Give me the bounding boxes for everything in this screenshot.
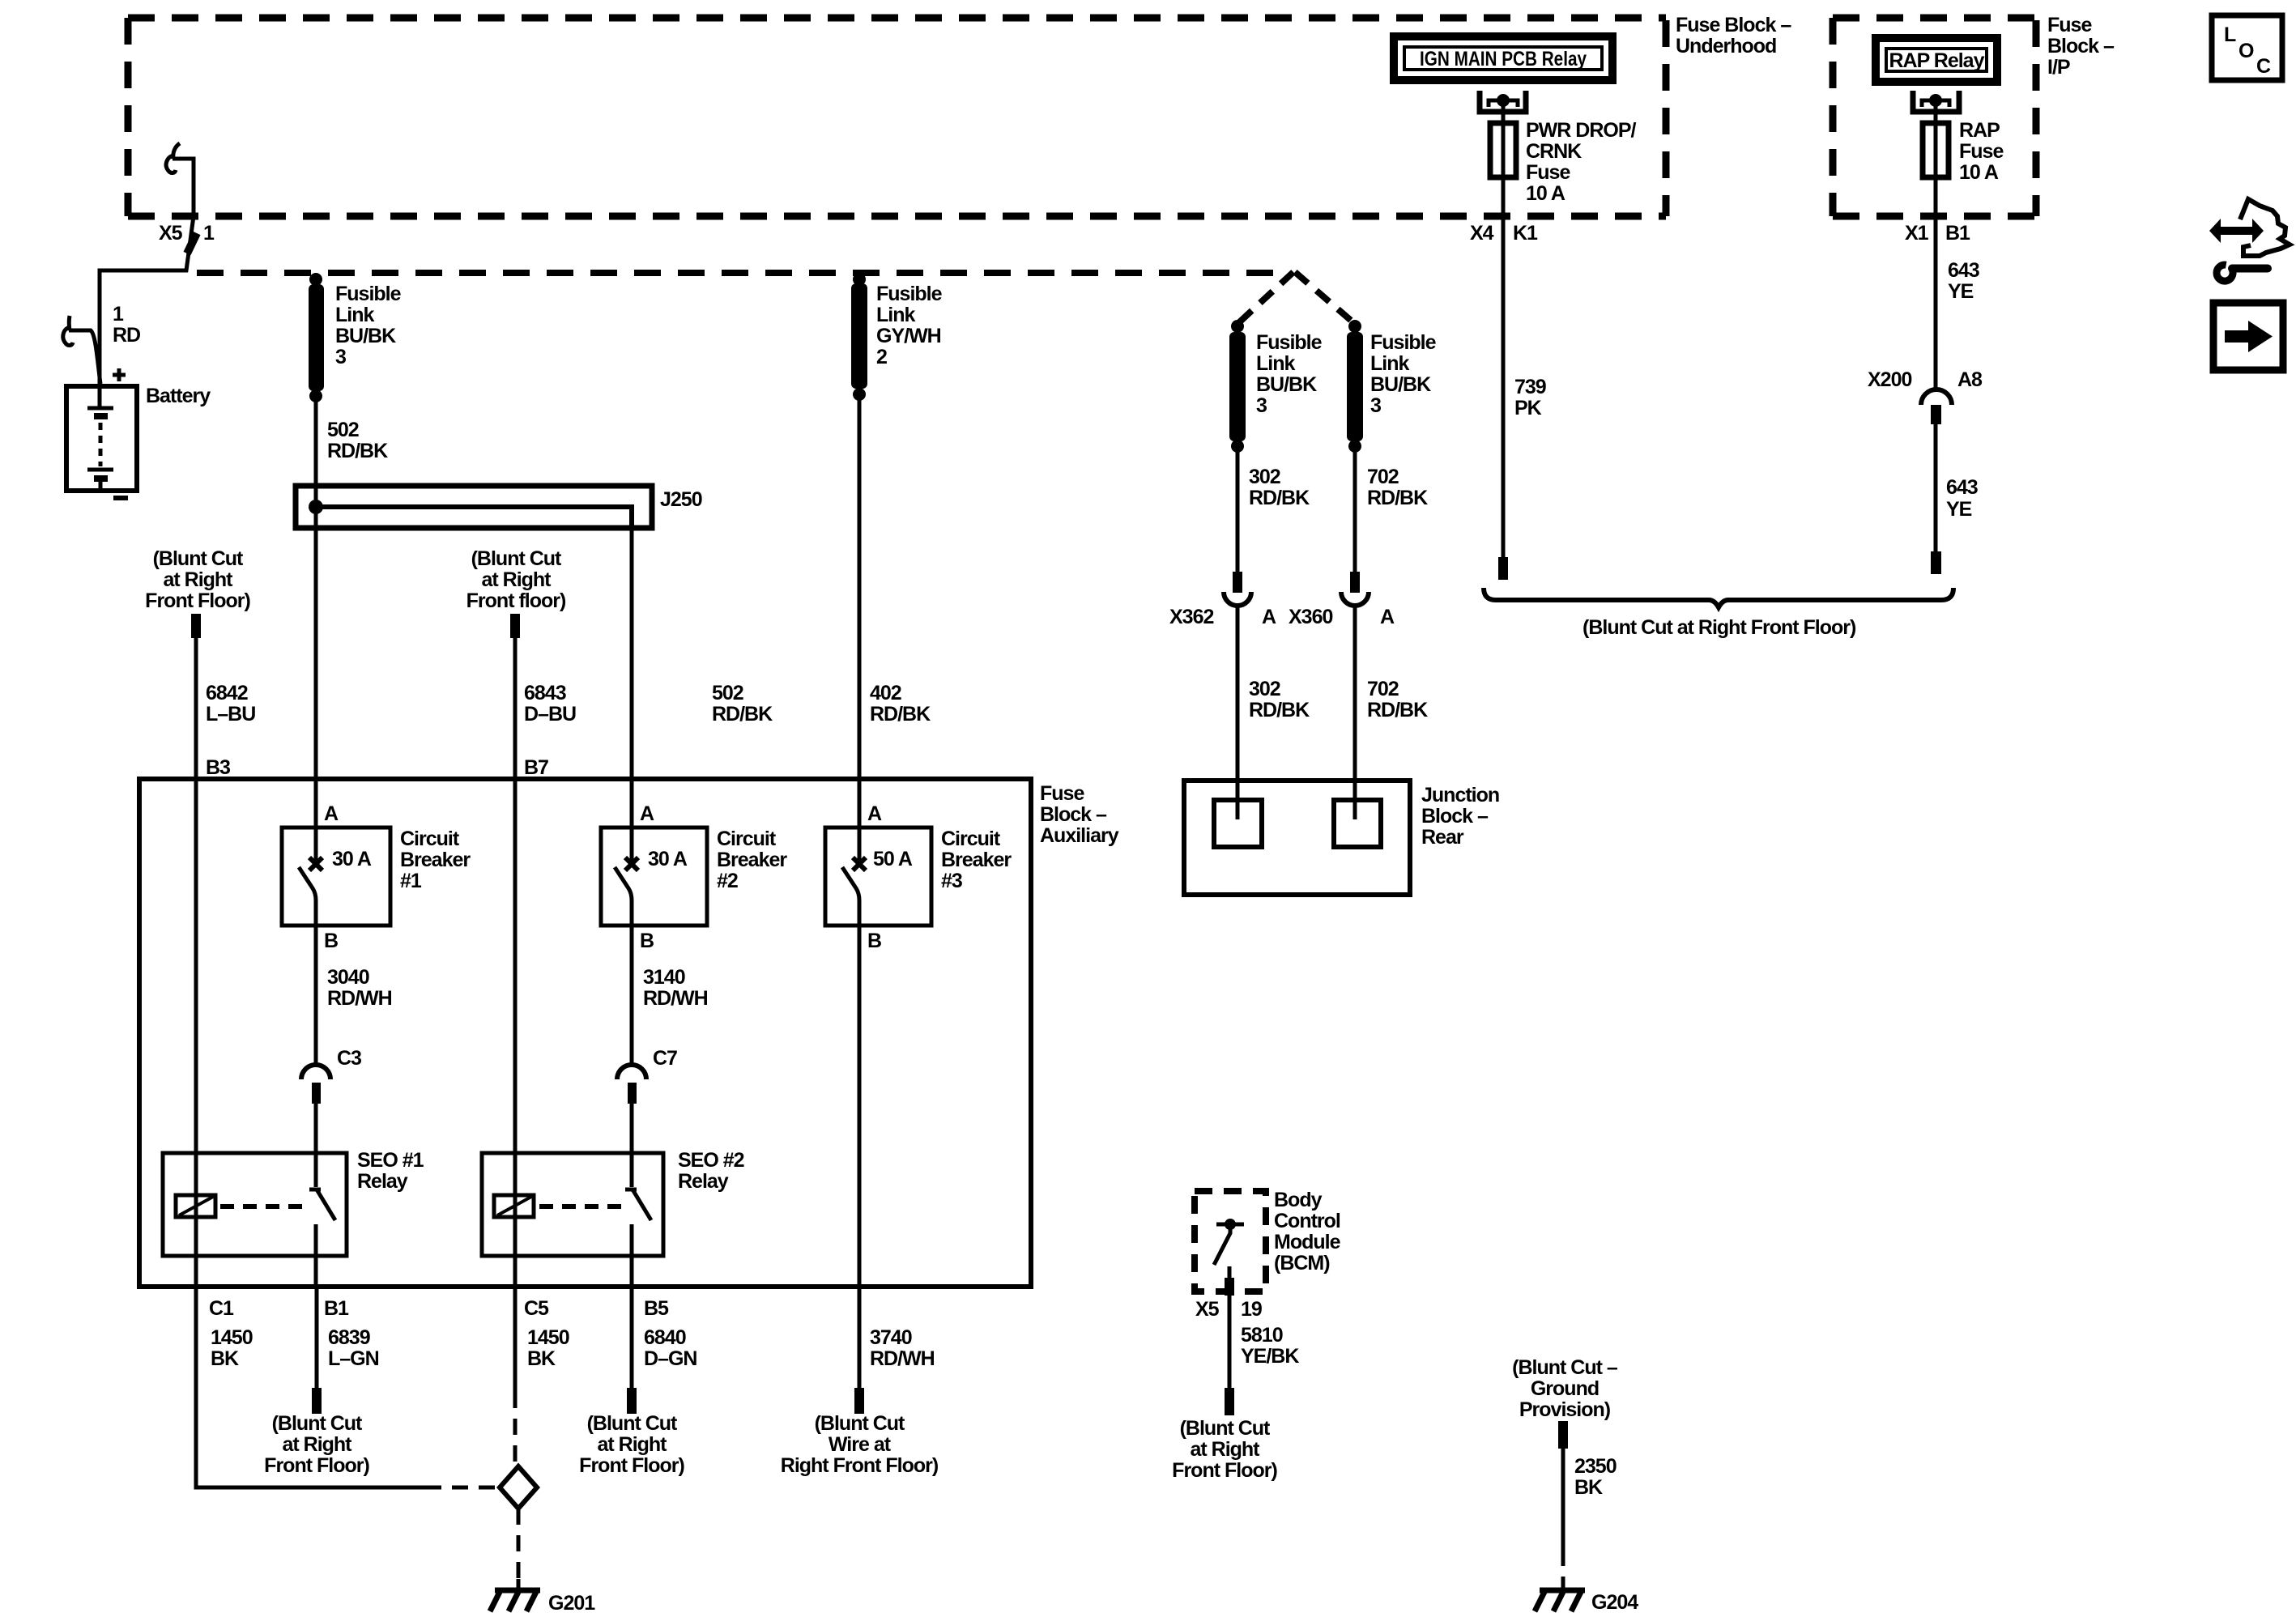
svg-text:Breaker: Breaker (400, 849, 471, 871)
svg-text:A: A (640, 802, 654, 825)
svg-text:2: 2 (876, 346, 887, 368)
svg-text:Block –: Block – (1040, 803, 1107, 826)
svg-text:C3: C3 (337, 1047, 361, 1070)
circuit breaker 2 label (717, 828, 787, 892)
label X5 / 1 (159, 222, 215, 245)
svg-text:A: A (324, 802, 339, 825)
label 6842 L-BU (206, 682, 255, 726)
svg-text:Junction: Junction (1421, 784, 1499, 806)
fusible link BU/BK 3 label (335, 283, 402, 368)
svg-text:G201: G201 (548, 1592, 595, 1615)
label X4 K1 (1470, 222, 1538, 245)
blunt cut stub 2350 (1558, 1421, 1568, 1449)
svg-text:#3: #3 (941, 870, 962, 892)
svg-text:Fusible: Fusible (876, 283, 943, 305)
svg-text:BK: BK (527, 1347, 556, 1370)
label 3740 RD/WH (870, 1326, 935, 1370)
svg-text:X360: X360 (1289, 606, 1332, 628)
svg-text:RD/WH: RD/WH (870, 1347, 935, 1370)
svg-text:Block –: Block – (2047, 35, 2115, 57)
svg-text:702: 702 (1367, 466, 1399, 488)
svg-text:X200: X200 (1868, 368, 1911, 391)
svg-text:(Blunt Cut at Right Front Floo: (Blunt Cut at Right Front Floor) (1582, 616, 1856, 639)
svg-text:L–GN: L–GN (328, 1347, 379, 1370)
svg-text:402: 402 (870, 682, 901, 704)
fusible link GY/WH 2 label (876, 283, 943, 368)
svg-text:B1: B1 (324, 1297, 349, 1320)
svg-text:Relay: Relay (678, 1170, 729, 1193)
label 502 RD/BK upper (327, 419, 388, 462)
svg-text:302: 302 (1249, 466, 1280, 488)
RAP relay title box (1876, 38, 1997, 82)
svg-text:RD/BK: RD/BK (870, 703, 931, 726)
wire 643 YE upper (1934, 216, 1938, 389)
svg-text:at Right: at Right (282, 1433, 352, 1456)
svg-text:Body: Body (1274, 1189, 1323, 1211)
fusible link BU/BK 3 (502 feed) (309, 273, 324, 402)
svg-text:302: 302 (1249, 678, 1280, 700)
svg-text:B3: B3 (206, 756, 230, 779)
svg-text:Fusible: Fusible (1256, 331, 1323, 354)
label 702 RD/BK lower (1367, 678, 1428, 721)
label 643 YE lower (1946, 476, 1978, 521)
blunt cut stub B1 (312, 1388, 322, 1414)
hook clip top (off-page connection) (166, 143, 180, 173)
label 6843 D-BU (524, 682, 576, 726)
PWR DROP/CRNK fuse (1490, 100, 1516, 216)
label blunt cut middle column (466, 547, 566, 612)
svg-text:SEO #2: SEO #2 (678, 1149, 744, 1172)
svg-text:C5: C5 (524, 1297, 549, 1320)
svg-text:at Right: at Right (1190, 1438, 1260, 1461)
svg-text:6840: 6840 (644, 1326, 686, 1349)
LOC legend box (2212, 15, 2282, 80)
svg-text:B1: B1 (1945, 222, 1970, 245)
svg-text:YE: YE (1948, 280, 1974, 303)
dashed branch to fusible link X362 (1237, 272, 1293, 324)
label 3040 RD/WH (327, 966, 392, 1010)
wire C7 to SEO2 relay switch (630, 1104, 634, 1187)
svg-text:X362: X362 (1169, 606, 1213, 628)
svg-text:RD/BK: RD/BK (327, 440, 388, 462)
svg-text:BK: BK (211, 1347, 239, 1370)
svg-text:YE: YE (1946, 498, 1972, 521)
dashed lead to ground G201 (517, 1508, 521, 1589)
fuse block underhood dashed box (128, 18, 1666, 216)
wire 502 RD/BK from J250 to circuit breaker 2 (630, 507, 634, 862)
SEO 1 relay actuation dashes (220, 1204, 308, 1209)
svg-text:BU/BK: BU/BK (1256, 373, 1317, 396)
label 6840 D-GN (644, 1326, 696, 1370)
RAP relay pin bracket (1913, 91, 1959, 112)
svg-text:Fuse Block –: Fuse Block – (1676, 14, 1791, 36)
svg-text:L: L (2224, 23, 2236, 46)
svg-text:X5: X5 (1195, 1298, 1220, 1321)
circuit breaker 3 label (941, 828, 1012, 892)
forward arrow legend box (2213, 303, 2283, 370)
circuit breaker 1 (282, 828, 390, 926)
splice diamond (500, 1466, 537, 1508)
svg-text:6843: 6843 (524, 682, 566, 704)
blunt cut stub 3740 (854, 1388, 864, 1414)
svg-text:3: 3 (1370, 394, 1381, 417)
fuse block auxiliary box (139, 779, 1031, 1287)
svg-text:B: B (640, 930, 654, 952)
label X200 A8 (1868, 368, 1983, 391)
blunt cut stub 6842 (191, 614, 201, 638)
blunt cut stub B5 (627, 1388, 637, 1414)
fusible link GY/WH 2 (851, 273, 867, 401)
wire 3040 RD/WH (314, 926, 318, 1065)
svg-text:I/P: I/P (2047, 56, 2070, 79)
SEO 1 relay label (357, 1149, 424, 1193)
service icon double arrow (2209, 219, 2264, 243)
wire 5810 YE/BK (1228, 1266, 1232, 1389)
label 402 RD/BK (870, 682, 931, 726)
svg-text:739: 739 (1514, 376, 1546, 398)
svg-text:Link: Link (1370, 352, 1409, 375)
svg-text:at Right: at Right (481, 568, 552, 591)
svg-text:X4: X4 (1470, 222, 1494, 245)
svg-text:643: 643 (1948, 259, 1979, 282)
wire 702 RD/BK lower (1353, 607, 1357, 819)
blunt cut stub 6843 (510, 614, 520, 638)
ground G201 (490, 1579, 540, 1611)
wire hook to battery positive (69, 330, 100, 384)
svg-text:30 A: 30 A (648, 848, 688, 870)
svg-text:Link: Link (335, 304, 374, 326)
wire C3 to SEO1 relay switch (314, 1104, 318, 1187)
wire C5 1450 BK (513, 1287, 518, 1392)
svg-text:Module: Module (1274, 1231, 1341, 1253)
svg-text:A: A (867, 802, 882, 825)
svg-text:YE/BK: YE/BK (1241, 1345, 1299, 1368)
svg-text:CRNK: CRNK (1526, 140, 1582, 163)
junction block cavity left (1214, 800, 1262, 847)
label 739 PK (1514, 376, 1546, 419)
svg-text:RD/WH: RD/WH (643, 987, 708, 1010)
svg-text:2350: 2350 (1574, 1455, 1617, 1478)
label 502 RD/BK right (712, 682, 773, 726)
svg-text:Underhood: Underhood (1676, 35, 1776, 57)
label blunt cut B5 (579, 1412, 684, 1477)
label blunt cut BCM (1172, 1417, 1277, 1482)
dashed branch to fusible link X360 (1295, 272, 1355, 324)
svg-text:RD/BK: RD/BK (712, 703, 773, 726)
svg-text:Provision): Provision) (1519, 1398, 1611, 1421)
svg-text:Front Floor): Front Floor) (1172, 1459, 1277, 1482)
ground G204 (1535, 1581, 1585, 1611)
fusible link 302 label (1256, 331, 1323, 417)
IGN relay pin bracket (1480, 91, 1526, 112)
svg-text:O: O (2238, 40, 2254, 62)
wire 702 RD/BK upper (1353, 451, 1357, 573)
label 3140 RD/WH (643, 966, 708, 1010)
connector tick X5-1 (187, 233, 197, 253)
SEO 2 relay box (482, 1153, 663, 1256)
connector C3 (301, 1065, 330, 1104)
svg-text:702: 702 (1367, 678, 1399, 700)
wire 402 RD/BK (858, 285, 862, 862)
svg-text:at Right: at Right (163, 568, 233, 591)
BCM label (1274, 1189, 1341, 1274)
svg-text:3: 3 (335, 346, 346, 368)
svg-text:Control: Control (1274, 1210, 1340, 1232)
svg-text:B: B (324, 930, 338, 952)
svg-text:C7: C7 (653, 1047, 677, 1070)
battery plus sign (113, 368, 126, 381)
svg-text:B7: B7 (524, 756, 548, 779)
svg-text:1: 1 (203, 222, 215, 245)
svg-text:Relay: Relay (357, 1170, 408, 1193)
label X362 A (1169, 606, 1276, 628)
label 302 RD/BK lower (1249, 678, 1310, 721)
fuse block IP label (2047, 14, 2115, 79)
wire B5 6840 (630, 1287, 634, 1389)
svg-text:Battery: Battery (146, 385, 211, 407)
wire 3140 RD/WH (630, 926, 634, 1065)
svg-text:BU/BK: BU/BK (1370, 373, 1431, 396)
RAP fuse label (1959, 119, 2004, 184)
svg-text:D–GN: D–GN (644, 1347, 696, 1370)
circuit breaker 1 label (400, 828, 471, 892)
label blunt cut left column (145, 547, 250, 612)
svg-text:Circuit: Circuit (400, 828, 460, 850)
fusible link BU/BK 3 (302) (1229, 320, 1246, 453)
svg-text:1450: 1450 (211, 1326, 253, 1349)
svg-text:3740: 3740 (870, 1326, 912, 1349)
wire 502 RD/BK from fusible link through J250 to circuit breaker 1 (314, 285, 318, 862)
fuse block IP dashed box (1833, 18, 2036, 216)
svg-text:Fusible: Fusible (335, 283, 402, 305)
fusible link BU/BK 3 (702) (1347, 320, 1363, 453)
svg-text:(Blunt Cut: (Blunt Cut (153, 547, 244, 570)
wire 643 YE lower (1934, 424, 1938, 553)
svg-text:Ground: Ground (1531, 1377, 1599, 1400)
connector X360 (1341, 572, 1369, 606)
svg-text:RD/BK: RD/BK (1367, 699, 1428, 721)
svg-text:502: 502 (327, 419, 359, 441)
svg-text:C1: C1 (209, 1297, 234, 1320)
svg-text:(BCM): (BCM) (1274, 1252, 1330, 1274)
label 643 YE upper (1948, 259, 1979, 303)
svg-text:Circuit: Circuit (717, 828, 777, 850)
svg-text:(Blunt Cut: (Blunt Cut (815, 1412, 905, 1435)
IGN MAIN PCB relay title box (1394, 36, 1612, 80)
svg-text:A8: A8 (1957, 368, 1983, 391)
label 2350 BK (1574, 1455, 1617, 1499)
svg-text:1: 1 (113, 303, 124, 326)
body control module dashed box (1195, 1191, 1266, 1291)
svg-text:RD/BK: RD/BK (1249, 699, 1310, 721)
fuse block auxiliary label (1040, 782, 1119, 847)
svg-text:5810: 5810 (1241, 1324, 1283, 1347)
hook clip at battery positive (63, 316, 73, 346)
svg-text:Breaker: Breaker (717, 849, 787, 871)
circuit breaker 2 (601, 828, 707, 926)
svg-text:Link: Link (1256, 352, 1295, 375)
label 1450 BK right (527, 1326, 569, 1370)
svg-text:RAP Relay: RAP Relay (1889, 49, 1985, 72)
service icon wrench (2217, 265, 2268, 281)
svg-text:(Blunt Cut: (Blunt Cut (471, 547, 562, 570)
svg-text:Fuse: Fuse (1040, 782, 1084, 805)
svg-text:BK: BK (1574, 1476, 1603, 1499)
SEO 2 relay switch (625, 1189, 651, 1287)
wire 2350 BK (1561, 1449, 1565, 1550)
svg-text:Fusible: Fusible (1370, 331, 1437, 354)
svg-text:Circuit: Circuit (941, 828, 1001, 850)
svg-text:Auxiliary: Auxiliary (1040, 824, 1119, 847)
brace blunt cut at right front floor (1484, 588, 1953, 607)
svg-text:SEO #1: SEO #1 (357, 1149, 424, 1172)
svg-text:#1: #1 (400, 870, 422, 892)
svg-text:Block –: Block – (1421, 805, 1489, 828)
svg-text:(Blunt Cut: (Blunt Cut (1180, 1417, 1271, 1440)
splice pack J250 (296, 486, 652, 528)
blunt cut stub 643 (1931, 551, 1941, 574)
svg-text:(Blunt Cut: (Blunt Cut (272, 1412, 363, 1435)
battery B1 (66, 386, 137, 491)
label X360 A (1289, 606, 1395, 628)
dashed wire into splice diamond (425, 1486, 497, 1490)
svg-text:Fuse: Fuse (2047, 14, 2092, 36)
svg-text:A: A (1262, 606, 1276, 628)
svg-text:Fuse: Fuse (1959, 140, 2004, 163)
BCM internal driver switch (1214, 1219, 1244, 1265)
svg-text:A: A (1380, 606, 1395, 628)
svg-text:10 A: 10 A (1959, 161, 1999, 184)
svg-text:J250: J250 (660, 488, 702, 511)
SEO 2 relay coil (494, 1195, 534, 1217)
wire 302 RD/BK lower (1236, 607, 1240, 819)
SEO 1 relay box (163, 1153, 347, 1256)
connector tick X5-19 (1225, 1278, 1234, 1296)
label 702 RD/BK upper (1367, 466, 1428, 509)
label 6839 L-GN (328, 1326, 379, 1370)
service icon component outline (2240, 199, 2290, 256)
svg-text:B5: B5 (644, 1297, 669, 1320)
svg-text:3040: 3040 (327, 966, 369, 989)
label X1 B1 (1905, 222, 1970, 245)
svg-text:X5: X5 (159, 222, 183, 245)
svg-text:Fuse: Fuse (1526, 161, 1570, 184)
svg-text:PWR DROP/: PWR DROP/ (1526, 119, 1637, 142)
label blunt cut 3740 (781, 1412, 939, 1477)
RAP fuse 10A (1923, 100, 1949, 216)
SEO 2 relay label (678, 1149, 744, 1193)
wire 6843 D-BU (513, 638, 518, 1287)
svg-text:30 A: 30 A (332, 848, 372, 870)
svg-text:(Blunt Cut: (Blunt Cut (587, 1412, 678, 1435)
battery minus sign (113, 496, 128, 500)
svg-text:#2: #2 (717, 870, 738, 892)
svg-text:L–BU: L–BU (206, 703, 255, 726)
svg-text:C: C (2256, 55, 2271, 78)
junction block cavity right (1334, 800, 1381, 847)
svg-text:3: 3 (1256, 394, 1267, 417)
svg-text:RAP: RAP (1959, 119, 2000, 142)
label 1450 BK left (211, 1326, 253, 1370)
svg-text:Front Floor): Front Floor) (145, 589, 250, 612)
SEO 2 relay actuation dashes (539, 1204, 624, 1209)
svg-text:RD/BK: RD/BK (1249, 487, 1310, 509)
wire B1 6839 (315, 1287, 319, 1389)
wire 302 RD/BK upper (1236, 451, 1240, 573)
svg-text:Front Floor): Front Floor) (579, 1454, 684, 1477)
label X5 19 (1195, 1298, 1262, 1321)
fuse block auxiliary dashed extension line (197, 270, 1284, 276)
svg-text:1450: 1450 (527, 1326, 569, 1349)
PWR DROP fuse label (1526, 119, 1637, 205)
svg-text:Front floor): Front floor) (466, 589, 566, 612)
svg-text:Wire at: Wire at (829, 1433, 892, 1456)
junction block label (1421, 784, 1499, 849)
dashed wire C5 to splice diamond (513, 1392, 518, 1462)
wire 3740 RD/WH (858, 926, 862, 1389)
dashed lead to ground G204 (1561, 1550, 1565, 1589)
svg-text:(Blunt Cut –: (Blunt Cut – (1512, 1356, 1618, 1379)
svg-text:RD: RD (113, 324, 140, 347)
svg-text:GY/WH: GY/WH (876, 325, 941, 347)
label wire 1 RD (113, 303, 140, 347)
svg-text:RD/BK: RD/BK (1367, 487, 1428, 509)
svg-text:Rear: Rear (1421, 826, 1464, 849)
wire 739 PK (1502, 216, 1506, 559)
label 302 RD/BK upper (1249, 466, 1310, 509)
blunt cut stub 739 (1498, 557, 1508, 580)
svg-text:D–BU: D–BU (524, 703, 576, 726)
svg-text:at Right: at Right (597, 1433, 667, 1456)
svg-text:IGN MAIN PCB Relay: IGN MAIN PCB Relay (1420, 48, 1587, 70)
fuse block underhood label (1676, 14, 1791, 57)
svg-text:RD/WH: RD/WH (327, 987, 392, 1010)
blunt cut stub 5810 (1225, 1388, 1234, 1415)
svg-text:Breaker: Breaker (941, 849, 1012, 871)
svg-text:B: B (867, 930, 881, 952)
SEO 1 relay switch (309, 1189, 335, 1287)
circuit breaker 3 (825, 828, 931, 926)
connector X362 (1224, 572, 1251, 606)
svg-text:K1: K1 (1513, 222, 1538, 245)
connector X200 (1921, 389, 1952, 424)
SEO 1 relay coil (176, 1195, 215, 1217)
svg-text:Front Floor): Front Floor) (264, 1454, 369, 1477)
svg-text:19: 19 (1241, 1298, 1262, 1321)
svg-text:3140: 3140 (643, 966, 685, 989)
wire battery feed through X5-1 (100, 159, 194, 409)
svg-text:50 A: 50 A (873, 848, 913, 870)
label blunt cut B1 (264, 1412, 369, 1477)
svg-text:Link: Link (876, 304, 915, 326)
svg-text:Right Front Floor): Right Front Floor) (781, 1454, 939, 1477)
svg-text:10 A: 10 A (1526, 182, 1565, 205)
connector C7 (617, 1065, 646, 1104)
svg-text:BU/BK: BU/BK (335, 325, 396, 347)
svg-text:6842: 6842 (206, 682, 248, 704)
svg-text:643: 643 (1946, 476, 1978, 499)
svg-text:502: 502 (712, 682, 743, 704)
junction block rear box (1184, 781, 1410, 895)
wire C1 1450 BK to splice (196, 1287, 425, 1487)
svg-text:6839: 6839 (328, 1326, 370, 1349)
svg-text:X1: X1 (1905, 222, 1929, 245)
label 5810 YE/BK (1241, 1324, 1299, 1368)
svg-text:G204: G204 (1591, 1591, 1638, 1614)
fusible link 702 label (1370, 331, 1437, 417)
svg-text:PK: PK (1514, 397, 1542, 419)
wire 6842 L-BU (194, 638, 198, 1287)
